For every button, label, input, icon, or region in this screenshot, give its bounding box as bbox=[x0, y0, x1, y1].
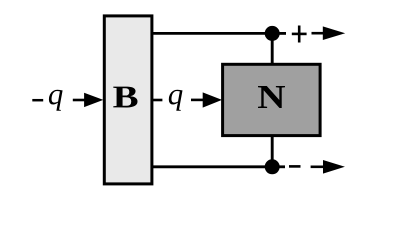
wire top vertical bbox=[271, 33, 274, 65]
wire stub right of B bbox=[153, 99, 162, 102]
block B bbox=[104, 16, 152, 184]
label -q bbox=[32, 90, 62, 111]
label N bbox=[258, 86, 285, 108]
node top junction bbox=[265, 26, 280, 41]
node bottom junction bbox=[265, 159, 280, 174]
wire top stub bbox=[272, 32, 286, 35]
label B bbox=[113, 87, 137, 108]
label + bbox=[292, 26, 307, 43]
arrow into N bbox=[191, 92, 222, 107]
output arrow plus bbox=[312, 26, 346, 40]
output arrow minus bbox=[311, 160, 345, 174]
input arrow into B bbox=[73, 93, 104, 107]
label minus bbox=[289, 165, 301, 168]
wire bottom horizontal bbox=[153, 165, 272, 168]
wire bottom stub bbox=[272, 165, 285, 168]
label q bbox=[169, 90, 183, 111]
block N bbox=[223, 64, 321, 135]
wire top horizontal bbox=[153, 32, 272, 35]
wire bottom vertical bbox=[271, 136, 274, 167]
